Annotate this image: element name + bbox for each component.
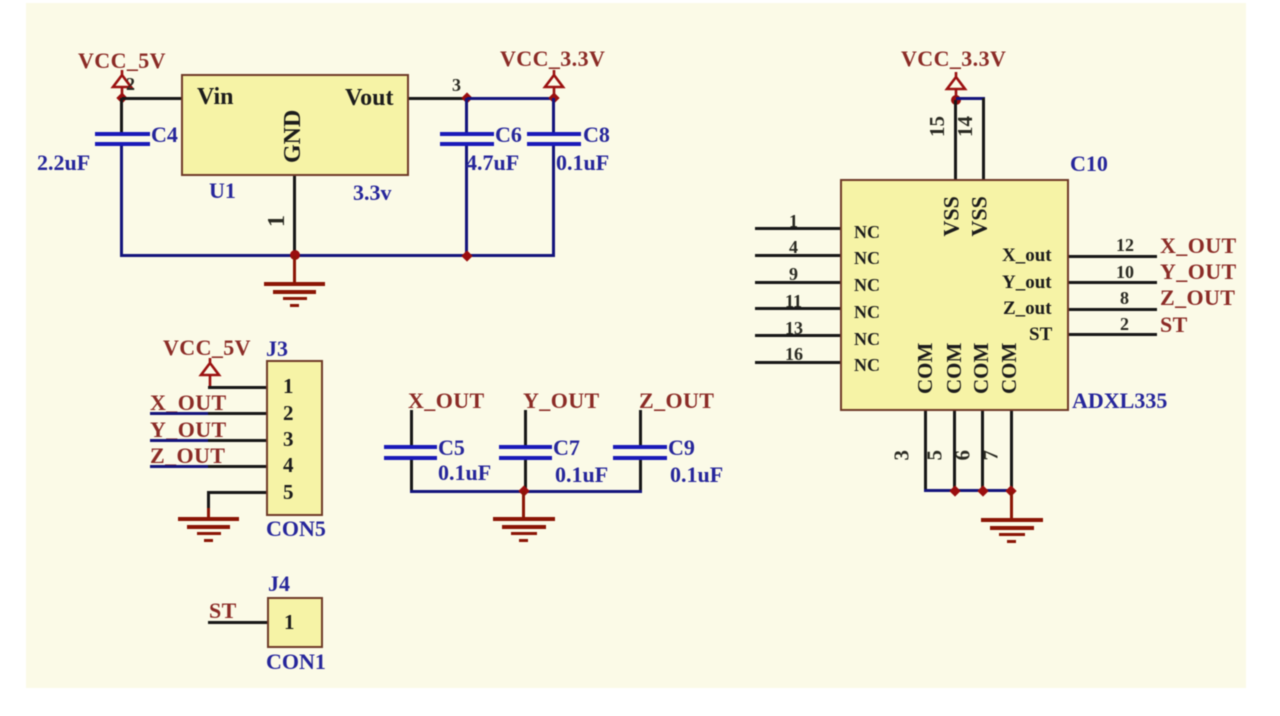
wire X_OUT (blue) <box>150 412 208 415</box>
designator C10 <box>1070 153 1108 175</box>
net label Y_OUT (J3) <box>150 419 227 441</box>
connector J4 box <box>267 597 323 648</box>
net label VCC_3.3V (ADXL) <box>901 48 1006 70</box>
pin name Vout <box>345 86 393 110</box>
pin name Z_out <box>1003 299 1052 318</box>
designator C8 <box>583 124 610 146</box>
pin 1 wire U1 GND down <box>293 176 296 256</box>
power symbol VCC_3.3V (regulator output) <box>542 70 566 100</box>
pin name X_out <box>1002 246 1052 265</box>
capacitor C4 lead lower (blue wire) <box>120 146 123 257</box>
net label VCC_3.3V <box>500 48 605 70</box>
net label Z_OUT (right) <box>1160 287 1235 309</box>
part name ADXL335 <box>1072 390 1167 412</box>
capacitor C7 lower lead <box>524 460 527 492</box>
wire Y_OUT (blue) <box>150 439 208 442</box>
ground bus wire (caps) <box>410 490 642 493</box>
pin 15 wire down <box>954 100 957 179</box>
pin number 2 (right) <box>1120 315 1129 333</box>
junction dot VCC (ADXL) <box>951 95 961 105</box>
capacitor C4 lead upper (black) <box>120 98 123 132</box>
wire Y_OUT down to C7 <box>524 410 527 445</box>
value 4.7uF <box>466 152 519 174</box>
pin 13 wire (left) <box>755 334 840 337</box>
pin name NC (1) <box>854 223 880 241</box>
pin number 8 <box>1120 289 1129 307</box>
power symbol VCC_5V (J3) <box>198 358 222 388</box>
pin number 1 <box>283 376 294 397</box>
value 0.1uF (C5) <box>438 462 491 484</box>
pin number 9 (left) <box>789 265 798 283</box>
pin number 3 <box>452 76 461 94</box>
junction dot (caps ground) <box>518 485 529 496</box>
pin name Y_out <box>1002 273 1052 292</box>
pin 1 wire (J3) <box>208 386 266 389</box>
pin name NC (4) <box>854 249 880 267</box>
wire pin5 corner down <box>207 491 210 511</box>
net label Z_OUT (J3) <box>150 445 225 467</box>
pin name COM (3, rotated) <box>915 343 936 394</box>
pin 2 wire from VCC_5V node to U1 Vin <box>122 97 182 100</box>
designator J4 <box>268 573 290 595</box>
pin number 5 (rotated bottom) <box>925 451 946 461</box>
pin number 10 <box>1116 263 1134 281</box>
net label VCC_5V <box>78 50 166 72</box>
net label ST (right) <box>1160 314 1188 336</box>
pin number 11 (left) <box>785 292 802 310</box>
IC ADXL335 box <box>840 179 1069 411</box>
pin number 16 (left) <box>785 345 803 363</box>
junction dot VCC_3.3V node <box>548 92 559 103</box>
pin 4 wire (left) <box>755 254 840 257</box>
capacitor C8 plates <box>527 132 581 136</box>
pin 16 wire (left) <box>755 361 840 364</box>
pin 5 wire (black) <box>208 491 266 494</box>
designator C6 <box>495 124 522 146</box>
pin 6 wire (bottom) <box>981 411 984 492</box>
bottom ground bus wire <box>120 254 555 257</box>
pin number 1 (rotated) <box>265 215 289 227</box>
junction dot pin6/bus <box>977 485 988 496</box>
capacitor C6 lead lower (blue) <box>465 146 468 257</box>
pin number 7 (rotated bottom) <box>981 451 1002 461</box>
net label X_OUT (C5) <box>408 390 485 412</box>
pin number 5 <box>283 482 294 503</box>
power symbol VCC_5V (top left) <box>110 70 134 100</box>
designator C7 <box>553 437 580 459</box>
value 2.2uF <box>37 152 90 174</box>
capacitor C9 lower lead <box>639 460 642 492</box>
pin number 4 (left) <box>789 238 798 256</box>
capacitor C6 lead upper (blue) <box>465 98 468 132</box>
net label Z_OUT (C9) <box>639 390 714 412</box>
pin name ST <box>1029 325 1052 344</box>
junction dot node 3 <box>461 92 472 103</box>
pin 8 wire (right) <box>1069 308 1157 311</box>
wire Z_OUT (blue) <box>150 465 208 468</box>
ground symbol (caps) <box>492 490 494 492</box>
ground bus wire (ADXL) <box>924 489 1013 492</box>
pin name NC (16) <box>854 356 880 374</box>
pin number 6 (rotated bottom) <box>953 451 974 461</box>
pin name COM (6, rotated) <box>971 343 992 394</box>
net label Y_OUT (right) <box>1160 261 1237 283</box>
pin name VSS (15, rotated) <box>941 196 963 237</box>
pin number 12 <box>1116 236 1134 254</box>
pin 4 wire (black) <box>208 465 266 468</box>
power symbol VCC_3.3V (ADXL) <box>944 72 968 102</box>
pin number 4 <box>283 455 294 476</box>
pin 12 wire (right) <box>1069 255 1157 258</box>
pin name GND (rotated) <box>281 109 305 163</box>
pin 10 wire (right) <box>1069 281 1157 284</box>
pin name NC (13) <box>854 330 880 348</box>
pin 2 wire (right) <box>1069 333 1157 336</box>
designator J3 <box>266 338 288 360</box>
value 3.3v <box>353 182 392 204</box>
pin number 13 (left) <box>785 319 803 337</box>
junction dot at U1 GND / bus <box>290 250 300 260</box>
pin number 2 <box>283 403 294 424</box>
pin 3 wire U1 Vout to node <box>409 97 467 100</box>
pin 9 wire (left) <box>755 281 840 284</box>
designator U1 <box>209 180 236 202</box>
capacitor C9 plates <box>613 445 667 449</box>
capacitor C8 lead lower (blue) <box>552 146 555 257</box>
net label Y_OUT (C7) <box>523 390 600 412</box>
pin 3 wire (black) <box>208 439 266 442</box>
pin number 1 (J4) <box>284 612 295 633</box>
pin number 3 <box>283 429 294 450</box>
pin name VSS (14, rotated) <box>969 196 991 237</box>
capacitor C8 lead upper (blue) <box>552 98 555 132</box>
pin name NC (9) <box>854 276 880 294</box>
junction dot pin5/bus <box>949 485 960 496</box>
pin 11 wire (left) <box>755 307 840 310</box>
capacitor C5 plates <box>384 445 437 449</box>
capacitor C6 plates <box>440 132 494 136</box>
net label VCC_5V (J3) <box>163 337 251 359</box>
value 0.1uF <box>556 152 609 174</box>
pin name NC (11) <box>854 303 880 321</box>
pin 7 wire (bottom) <box>1010 411 1013 492</box>
designator CON5 <box>266 518 326 540</box>
junction dot pin7/bus <box>1005 485 1016 496</box>
connector J3 box <box>266 360 323 516</box>
wire Z_OUT down to C9 <box>639 410 642 445</box>
net label ST (J4) <box>209 600 237 622</box>
pin name COM (7, rotated) <box>999 343 1020 394</box>
designator C5 <box>438 437 465 459</box>
designator C9 <box>668 437 695 459</box>
pin number 2 <box>126 75 135 93</box>
wire ST to J4 <box>208 621 267 624</box>
designator C4 <box>151 124 178 146</box>
designator CON1 <box>266 651 326 673</box>
pin 5 wire (bottom) <box>953 411 956 492</box>
capacitor C5 lower lead <box>410 460 413 492</box>
pin 1 wire (left) <box>755 227 840 230</box>
capacitor C4 plates <box>95 132 150 136</box>
wire node3 to VCC_3.3V node <box>467 97 554 100</box>
pin 2 wire (black) <box>208 412 266 415</box>
net label X_OUT (right) <box>1160 235 1237 257</box>
regulator U1 box <box>181 74 409 176</box>
net label X_OUT (J3) <box>150 392 227 414</box>
ground symbol (J3) <box>177 507 179 509</box>
pin 3 wire (bottom) <box>924 411 927 492</box>
junction dot at C6 / bus <box>461 250 472 261</box>
value 0.1uF (C7) <box>555 464 608 486</box>
junction dot at VCC_5V node <box>116 92 127 103</box>
wire jog to pin 14 (blue) <box>956 97 985 100</box>
pin name COM (5, rotated) <box>944 343 965 394</box>
pin number 3 (rotated bottom) <box>892 451 913 461</box>
pin name Vin <box>197 85 233 109</box>
capacitor C7 plates <box>499 445 552 449</box>
pin number 15 (rotated) <box>927 116 948 137</box>
value 0.1uF (C9) <box>670 464 723 486</box>
pin number 1 (left) <box>789 212 798 230</box>
ground symbol (ADXL) <box>980 491 982 493</box>
pin 14 wire down <box>982 98 985 179</box>
ground symbol (regulator) <box>263 255 265 257</box>
pin number 14 (rotated) <box>955 116 976 137</box>
wire X_OUT down to C5 <box>410 410 413 445</box>
